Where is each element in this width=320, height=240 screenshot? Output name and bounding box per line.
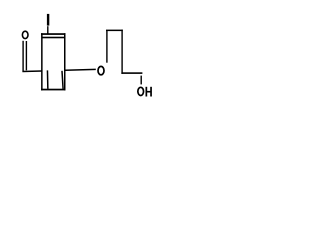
ring bottom edge bond — [41, 89, 66, 91]
bond ring C2 to I — [47, 26, 48, 34]
bond chain C4 to hydroxyl O — [141, 76, 142, 85]
ring lower-right double-bond inner line — [62, 71, 63, 89]
ring top double-bond inner line — [42, 37, 64, 39]
atom label I (iodine) — [47, 14, 49, 26]
atom label O (aldehyde oxygen) — [22, 31, 28, 38]
bond chain C2 to C3 (right vertical) — [121, 30, 122, 74]
ring right edge bond — [64, 33, 66, 90]
bond CHO carbon to ring C6 — [22, 70, 41, 72]
ring lower-left double-bond inner line — [46, 70, 48, 89]
atom label OH: H glyph right stem — [150, 87, 152, 97]
ring left edge bond — [41, 33, 43, 90]
bond ring C4 to ether O — [65, 69, 95, 71]
bond chain C3 to C4 (bottom horizontal) — [121, 72, 142, 74]
atom label OH: H glyph left stem — [146, 87, 148, 97]
atom label OH: H glyph crossbar — [146, 91, 151, 93]
atom label O (ether oxygen) — [98, 66, 104, 74]
bond ether O to chain C1 — [106, 30, 107, 63]
bond chain C1 to C2 (top horizontal) — [106, 30, 123, 32]
C=O double bond main line — [22, 41, 23, 72]
ring top edge bond C1-C2 (outer line) — [41, 33, 66, 35]
atom label OH: O glyph — [138, 87, 144, 95]
C=O double bond second line — [26, 41, 27, 70]
